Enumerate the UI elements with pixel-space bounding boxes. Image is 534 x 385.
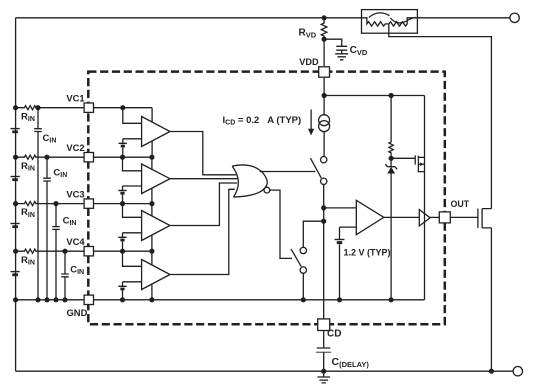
svg-text:OUT: OUT: [451, 199, 470, 209]
resistor R1 pull-up: [389, 96, 393, 159]
wire buffer output to OUT pin: [430, 216, 440, 218]
node VC4 input: [120, 249, 125, 254]
wire U5 minus input from 1.2V reference: [340, 227, 357, 239]
battery B3: [11, 223, 20, 225]
node VDD internal rail: [322, 93, 327, 98]
capacitor CIN2: [43, 157, 51, 300]
svg-text:RIN: RIN: [21, 161, 35, 173]
svg-text:CIN: CIN: [70, 265, 84, 277]
wire fuse heater tap to Q2 drain: [389, 24, 492, 209]
wire battery stack rail: [15, 108, 17, 372]
capacitor CIN1: [34, 108, 42, 300]
wire VDD feed to pin: [323, 39, 325, 66]
pin VC1: [84, 103, 93, 112]
wire internal GND rail: [94, 299, 425, 301]
wire U1 bottom supply to VC2: [151, 141, 153, 157]
battery 1.2V reference: [335, 239, 345, 241]
wire CD net vertical: [323, 185, 325, 319]
wire VC2 row to pin: [38, 156, 152, 158]
resistor RVD: [321, 18, 327, 39]
current source I1: [323, 96, 325, 115]
node VC1 stack: [13, 105, 18, 110]
wire Q1 drain/source vertical: [424, 96, 426, 300]
node GND CIN1: [35, 297, 40, 302]
node GND U4 supply: [149, 297, 154, 302]
node CD S2 tap: [321, 219, 326, 224]
pin VDD: [319, 67, 330, 77]
svg-text:ICD = 0.2 A (TYP): ICD = 0.2 A (TYP): [223, 115, 302, 127]
capacitor CDELAY: [317, 330, 331, 372]
fuse F1 internal elements: [362, 18, 418, 26]
node VC4 filter: [62, 249, 67, 254]
svg-text:RIN: RIN: [21, 255, 35, 267]
svg-text:RIN: RIN: [21, 207, 35, 219]
battery B4: [11, 271, 20, 273]
wire U3 plus input: [123, 204, 142, 218]
node gate drive / zener top: [389, 156, 394, 161]
resistor RIN3: [16, 202, 38, 206]
battery B2: [11, 176, 20, 178]
wire top rail: [16, 17, 510, 19]
wire U3 output to OR input3: [170, 183, 237, 226]
resistor RIN2: [16, 155, 38, 159]
svg-text:RVD: RVD: [299, 28, 317, 40]
node VC3 input: [120, 201, 125, 206]
node VC2 filter: [44, 155, 49, 160]
wire VC3 row to pin: [38, 203, 152, 205]
OR gate G1 output bubble: [264, 187, 270, 193]
svg-text:CIN: CIN: [43, 133, 57, 145]
fuse F1 three-terminal protector box: [362, 10, 418, 34]
node GND stack: [13, 297, 18, 302]
op-amp U1 comparator cell1: [142, 117, 170, 147]
node VC1 input: [120, 105, 125, 110]
wire left vertical from top rail to VC1 node: [15, 18, 17, 108]
transistor Q2 external MOSFET: [477, 209, 479, 228]
wire U2 minus input: [123, 186, 142, 191]
node VC2 input: [120, 155, 125, 160]
wire U4 bottom supply: [151, 284, 153, 300]
switch S1: [321, 157, 327, 163]
wire OR output to switch S1 control: [260, 171, 316, 173]
svg-text:1.2 V (TYP): 1.2 V (TYP): [344, 247, 391, 257]
wire internal VDD rail: [324, 95, 424, 97]
OR gate G1 body: [232, 165, 267, 183]
buffer A1: [419, 210, 430, 226]
wire U3 minus input: [123, 233, 142, 238]
wire U1 output to OR input1: [170, 132, 236, 175]
resistor RIN4: [16, 249, 38, 253]
wire external bottom rail: [16, 370, 513, 372]
battery U3 reference: [118, 236, 126, 238]
pin CD: [318, 319, 330, 331]
wire U1 plus input: [123, 108, 142, 124]
ground for CVD: [335, 54, 348, 60]
wire OUT pin to Q2 gate: [450, 216, 478, 218]
node VC2 supply: [149, 155, 154, 160]
resistor RIN1: [16, 106, 38, 110]
wire U1 minus input: [123, 139, 142, 144]
capacitor CVD: [324, 39, 347, 54]
svg-text:C(DELAY): C(DELAY): [332, 356, 370, 369]
svg-text:RIN: RIN: [21, 111, 35, 123]
battery B1: [11, 128, 20, 130]
op-amp U4 comparator cell4: [142, 260, 170, 290]
wire U4 plus input: [123, 251, 142, 266]
zener diode D1: [390, 158, 392, 166]
op-amp U5 delay comparator: [356, 200, 384, 234]
svg-text:VC4: VC4: [66, 236, 85, 247]
wire CD comparator tap: [324, 207, 357, 209]
node CD comparator tap: [321, 205, 326, 210]
node VC3 stack: [13, 201, 18, 206]
node GND CIN4: [62, 297, 67, 302]
node top rail RVD tap: [322, 15, 327, 20]
node GND U4 ref: [120, 297, 125, 302]
svg-text:VDD: VDD: [299, 57, 319, 67]
node RVD bottom CVD tap: [322, 37, 327, 42]
wire U4 output to OR input4: [170, 189, 235, 274]
battery U4 reference: [118, 285, 126, 287]
wire U2 bottom supply: [151, 188, 153, 204]
pin VC3: [84, 199, 93, 208]
svg-text:CIN: CIN: [63, 216, 77, 228]
wire U3 top supply: [151, 204, 153, 217]
pin GND: [84, 295, 93, 304]
svg-text:GND: GND: [67, 307, 88, 318]
node bottom rail CDELAY: [321, 369, 326, 374]
node GND CIN3: [53, 297, 58, 302]
wire VC1 row to pin: [38, 107, 152, 109]
capacitor CIN3: [52, 204, 60, 300]
op-amp U3 comparator cell3: [142, 211, 170, 241]
node VC1 filter: [35, 105, 40, 110]
svg-text:VC1: VC1: [66, 93, 84, 104]
wire U5 output to buffer: [384, 216, 420, 218]
svg-text:CD: CD: [327, 329, 341, 340]
terminal PACK+: [510, 13, 519, 22]
wire U2 plus input: [123, 157, 142, 171]
wire U2 top supply: [151, 157, 153, 169]
ground below bottom rail: [317, 371, 330, 383]
op-amp U2 comparator cell2: [142, 164, 170, 194]
battery U1 reference: [119, 142, 127, 144]
node GND S2: [301, 297, 306, 302]
wire NOR bubble output to switch S2 control: [270, 190, 292, 258]
node GND 1.2V reference: [337, 297, 342, 302]
wire U4 top supply: [151, 251, 153, 265]
wire S2 bottom to GND rail: [302, 273, 304, 300]
pin VC2: [84, 153, 93, 162]
node VC3 filter: [53, 201, 58, 206]
svg-text:CVD: CVD: [350, 45, 368, 57]
battery U2 reference: [118, 190, 126, 192]
wire GND row to pin: [16, 299, 85, 301]
node VC4 stack: [13, 249, 18, 254]
node bottom rail Q2 source: [489, 369, 494, 374]
node VC4 supply: [149, 249, 154, 254]
wire gate drive node: [391, 157, 415, 159]
switch S2: [300, 247, 306, 253]
wire U1 top supply from VC1: [151, 108, 153, 122]
pin VC4: [84, 247, 93, 256]
transistor Q1 internal MOSFET: [414, 155, 416, 164]
wire VC4 row to pin: [38, 250, 152, 252]
capacitor CIN4: [61, 251, 69, 300]
wire U3 bottom supply: [151, 235, 153, 251]
wire Q2 source to bottom rail: [490, 228, 492, 371]
terminal PACK-: [513, 367, 522, 376]
arrow for ICD current direction: [310, 110, 312, 130]
node GND CIN2: [44, 297, 49, 302]
node VC3 supply: [149, 201, 154, 206]
wire U2 output to OR input2: [170, 178, 238, 180]
wire VDD pin to internal rail: [323, 77, 325, 95]
IC boundary dashed box: [88, 72, 445, 325]
node GND zener: [389, 297, 394, 302]
wire U4 minus input: [123, 282, 142, 287]
svg-text:VC2: VC2: [66, 142, 84, 153]
svg-text:VC3: VC3: [66, 188, 84, 199]
pin OUT: [439, 212, 450, 223]
node pull-up resistor top: [389, 93, 394, 98]
node VC2 stack: [13, 155, 18, 160]
wire switch S2 branch: [303, 221, 323, 247]
svg-text:CIN: CIN: [53, 167, 67, 179]
